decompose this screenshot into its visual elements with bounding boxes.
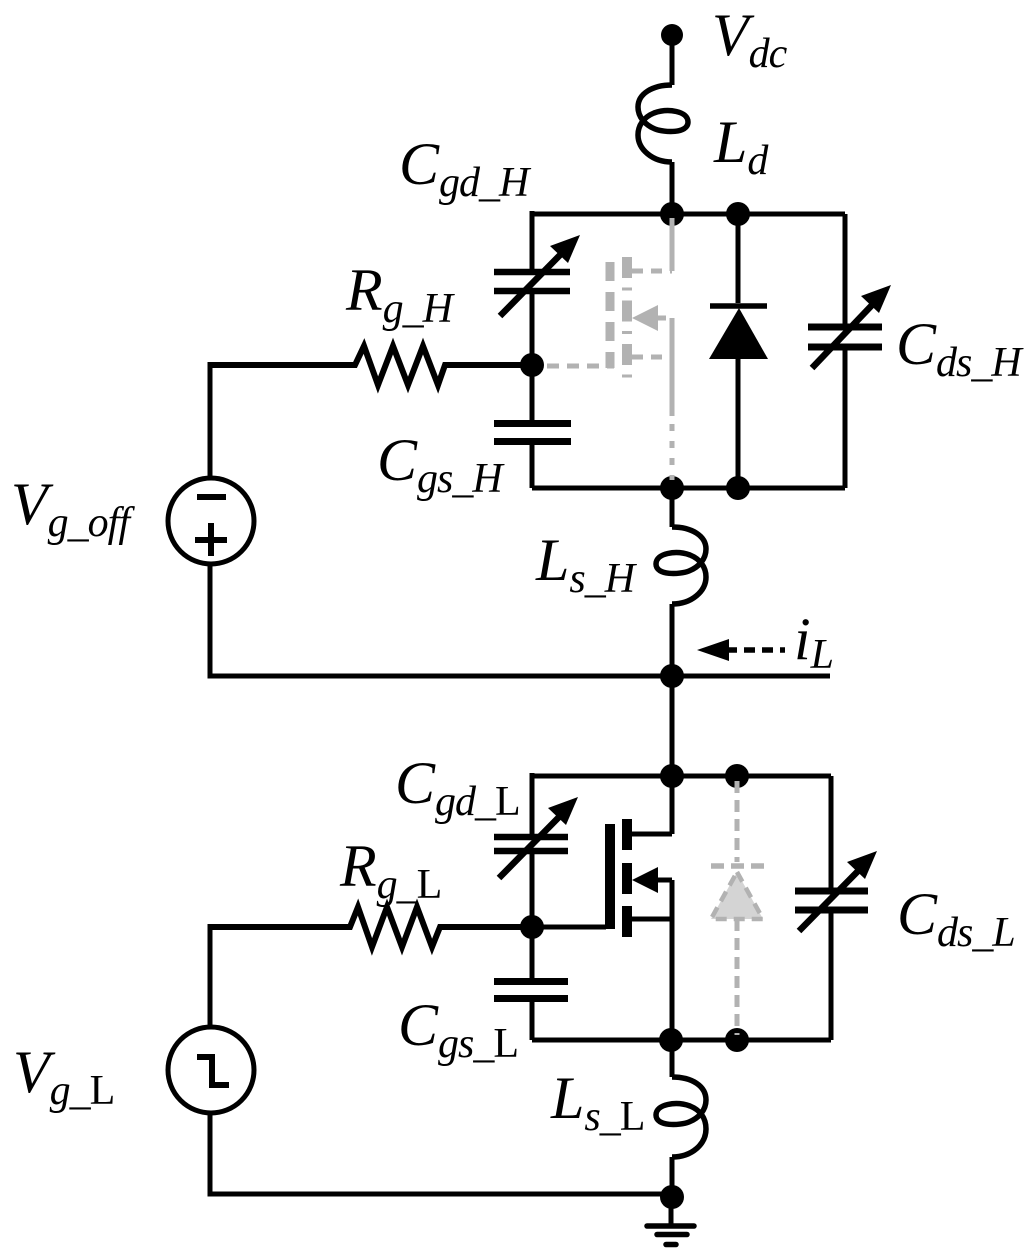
node source L bbox=[659, 1028, 683, 1052]
wire Cgd_H to gate node bbox=[530, 294, 535, 365]
svg-text:Cds_H: Cds_H bbox=[896, 311, 1024, 386]
wire left edge upper low-side bbox=[530, 773, 535, 834]
node diode DL bottom bbox=[725, 1028, 749, 1052]
svg-text:Cgd_L: Cgd_L bbox=[395, 750, 520, 825]
wire gate drive L vertical bbox=[208, 924, 213, 1028]
wire Vdc to Ld bbox=[670, 40, 675, 85]
node diode DL top bbox=[725, 764, 749, 788]
capacitor Cgs_H plates bbox=[494, 424, 571, 442]
wire switch node to low-side top rail bbox=[670, 676, 675, 776]
capacitor Cgd_L plates bbox=[494, 837, 568, 851]
svg-text:Rg_L: Rg_L bbox=[339, 833, 441, 908]
svg-text:Rg_H: Rg_H bbox=[345, 257, 456, 332]
inductor Ls_H bbox=[670, 488, 675, 527]
svg-text:Cgs_L: Cgs_L bbox=[398, 992, 518, 1067]
source Vg_off bbox=[168, 478, 254, 564]
svg-text:Vg_off: Vg_off bbox=[11, 471, 135, 546]
node Vdc terminal bbox=[661, 24, 683, 46]
transistor Q_L channel segments bbox=[622, 819, 632, 937]
wire Cgs_H to bottom rail bbox=[530, 442, 535, 488]
arrow iL current bbox=[726, 647, 785, 653]
transistor Q_L source lead bbox=[632, 880, 672, 1040]
node diode DH top bbox=[726, 202, 750, 226]
ground bbox=[669, 1197, 674, 1226]
capacitor Cds_H right branch bbox=[843, 214, 848, 324]
wire Vg_L bottom to ground rail bbox=[210, 1112, 672, 1194]
transistor Q_H drain vertical bbox=[670, 218, 675, 271]
capacitor Cds_L variable arrow bbox=[799, 868, 861, 931]
transistor Q_L gate lead bbox=[532, 925, 606, 930]
node drain L bbox=[660, 764, 684, 788]
wire Ld to top rail bbox=[670, 162, 675, 214]
wire gate node L to Cgs_L bbox=[530, 927, 535, 981]
capacitor Cgd_L variable arrow bbox=[499, 815, 561, 878]
capacitor Cgd_H plates bbox=[494, 272, 570, 291]
transistor Q_H body arrow bbox=[632, 305, 658, 331]
source Vg_L (pulse) bbox=[168, 1027, 254, 1113]
wire Cgs_L to bottom rail bbox=[530, 999, 535, 1040]
transistor Q_L MOSFET (black) gate bar bbox=[605, 824, 615, 929]
inductor Ld bbox=[638, 85, 688, 162]
wire top rail of high-side cell bbox=[532, 212, 845, 217]
svg-text:Ls_H: Ls_H bbox=[535, 527, 638, 602]
node gate L bbox=[520, 915, 544, 939]
transistor Q_H source vertical bbox=[670, 318, 675, 416]
capacitor Cds_H variable arrow bbox=[812, 303, 874, 368]
capacitor Cds_L right branch bbox=[829, 776, 834, 888]
capacitor Cgs_L plates bbox=[494, 982, 568, 999]
node drain H bbox=[660, 202, 684, 226]
wire top rail of low-side cell bbox=[532, 774, 831, 779]
node ground node bbox=[660, 1185, 684, 1209]
wire Cgd_L to gate node bbox=[530, 854, 535, 927]
wire gate drive H vertical bbox=[208, 362, 213, 479]
node switch node bbox=[660, 664, 684, 688]
svg-text:Ld: Ld bbox=[713, 109, 769, 184]
svg-text:Cgd_H: Cgd_H bbox=[399, 131, 532, 206]
diode DL body diode (gray dashed, off) bbox=[711, 781, 764, 1035]
wire gate node to Cgs_H bbox=[530, 365, 535, 423]
svg-text:Cds_L: Cds_L bbox=[897, 881, 1015, 956]
wire Vg_off bottom to mid rail bbox=[210, 563, 830, 676]
transistor Q_H gate bar dashed bbox=[606, 262, 615, 368]
transistor Q_H source lead dashed bbox=[632, 355, 672, 360]
resistor Rg_H bbox=[210, 346, 532, 385]
transistor Q_L drain lead bbox=[632, 776, 672, 834]
wire left edge upper (to Cgd_H) bbox=[530, 211, 535, 269]
node gate H bbox=[520, 353, 544, 377]
inductor Ls_L bbox=[670, 1040, 675, 1077]
wire bottom rail of low-side cell bbox=[532, 1038, 831, 1043]
svg-text:Ls_L: Ls_L bbox=[550, 1065, 644, 1140]
resistor Rg_L bbox=[210, 907, 532, 947]
svg-text:Vg_L: Vg_L bbox=[13, 1039, 114, 1114]
svg-text:iL: iL bbox=[794, 606, 833, 678]
node source H bbox=[660, 476, 684, 500]
svg-text:Vdc: Vdc bbox=[712, 2, 788, 77]
capacitor Cgd_H variable arrow bbox=[500, 253, 562, 316]
wire bottom rail of high-side cell bbox=[532, 486, 845, 491]
transistor Q_H channel dashed bbox=[622, 257, 632, 378]
transistor Q_H MOSFET (gray, off) bbox=[547, 218, 672, 480]
node diode DH bottom bbox=[726, 476, 750, 500]
svg-text:Cgs_H: Cgs_H bbox=[377, 427, 505, 502]
transistor Q_L body arrow bbox=[632, 867, 658, 893]
transistor Q_H drain lead dashed bbox=[632, 269, 672, 274]
transistor Q_H gate lead dashed bbox=[547, 364, 614, 369]
diode DH body diode (black, conducting) bbox=[736, 214, 741, 303]
